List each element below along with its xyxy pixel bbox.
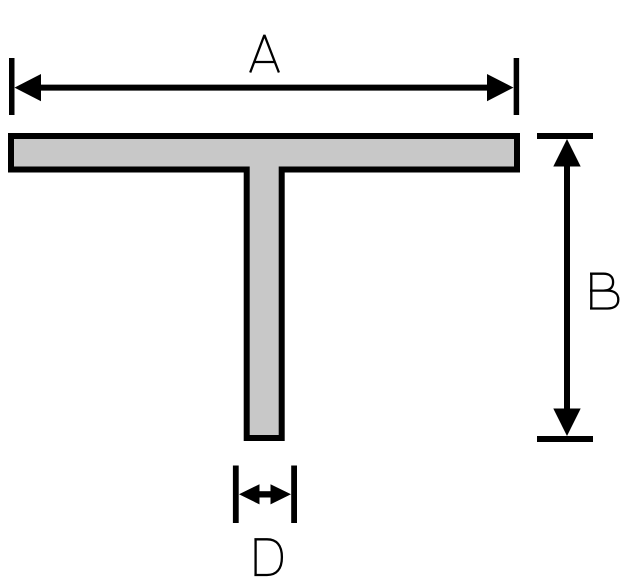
label D <box>254 538 282 576</box>
dimension A extension tick right <box>514 58 520 115</box>
dimension D double arrow <box>239 484 291 504</box>
dimension B extension tick bottom <box>537 436 593 442</box>
dimension A arrowhead right <box>487 74 514 101</box>
dimension A arrowhead left <box>15 74 42 101</box>
label A <box>250 35 279 73</box>
dimension D extension tick left <box>233 466 239 524</box>
dimension B extension tick top <box>537 133 593 139</box>
dimension B arrowhead top <box>553 139 580 167</box>
dimension B arrowhead bottom <box>553 409 580 437</box>
label B <box>590 273 618 310</box>
T-bar profile cross-section <box>11 136 517 438</box>
dimension D extension tick right <box>291 466 297 524</box>
dimension B line <box>564 164 570 411</box>
dimension A line <box>39 85 489 91</box>
dimension A extension tick left <box>9 58 15 115</box>
